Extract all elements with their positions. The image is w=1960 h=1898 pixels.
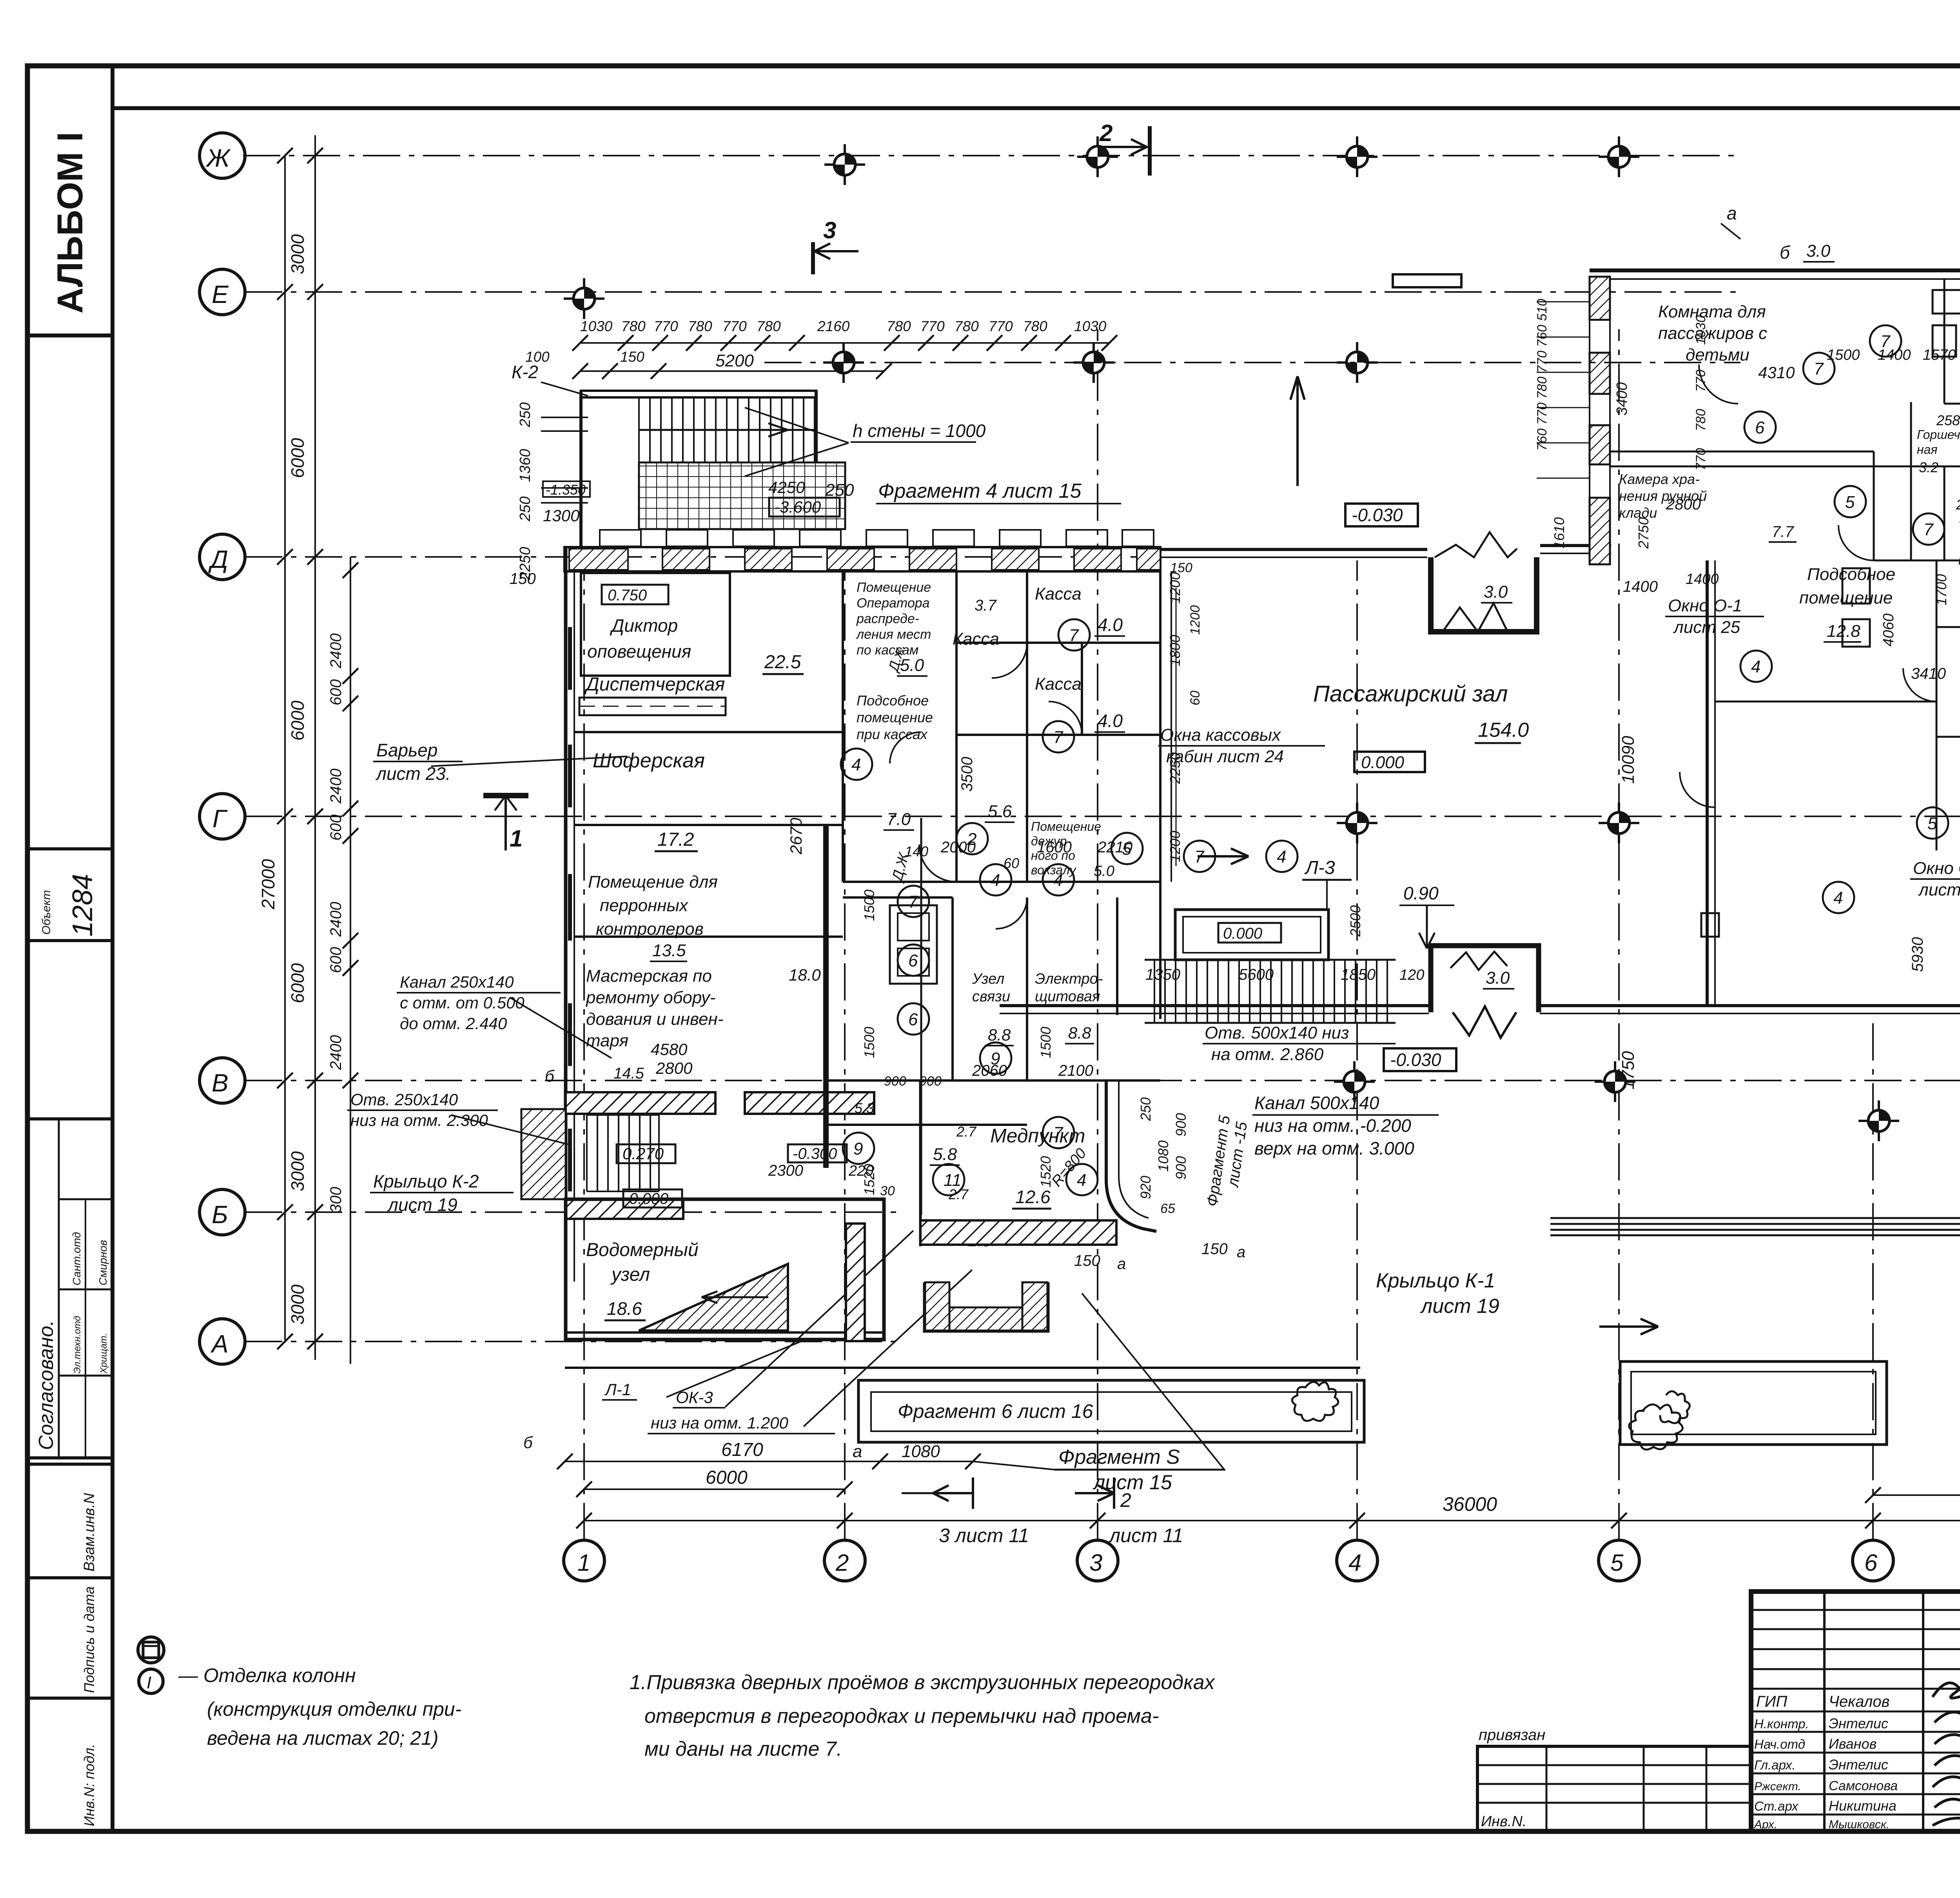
porch K-2 hatch outside west wall [521, 1109, 566, 1199]
svg-text:0.000: 0.000 [629, 1190, 668, 1207]
svg-text:4580: 4580 [651, 1040, 688, 1059]
svg-text:2500: 2500 [1347, 905, 1363, 937]
treads [1154, 960, 1387, 1023]
svg-text:-1.350: -1.350 [546, 482, 586, 498]
svg-text:1360: 1360 [517, 449, 534, 482]
svg-text:4: 4 [1348, 1550, 1361, 1576]
svg-text:клади: клади [1619, 505, 1657, 521]
svg-text:-3.600: -3.600 [774, 498, 821, 516]
svg-text:Оператора: Оператора [857, 596, 930, 611]
камера хранения [1610, 451, 1874, 560]
svg-text:4.0: 4.0 [1098, 615, 1123, 635]
mark 0.000 box hall [1354, 752, 1425, 772]
svg-text:лист 25: лист 25 [1918, 880, 1960, 899]
svg-text:3.0: 3.0 [1484, 582, 1508, 602]
stair K-2 right wall [815, 391, 818, 529]
svg-text:13.5: 13.5 [652, 941, 686, 960]
svg-text:4: 4 [1277, 847, 1286, 867]
stair L-3 [1145, 910, 1424, 1023]
svg-text:5200: 5200 [715, 351, 754, 370]
svg-text:1: 1 [510, 825, 523, 852]
svg-text:780: 780 [1693, 409, 1708, 431]
planter 1 scribble [1292, 1382, 1338, 1421]
svg-text:дования и инвен-: дования и инвен- [586, 1010, 723, 1029]
svg-text:оповещения: оповещения [587, 641, 691, 662]
svg-text:Горшеч-: Горшеч- [1917, 428, 1960, 442]
top dimension chain above left wing [512, 318, 1117, 396]
svg-text:кабин лист 24: кабин лист 24 [1166, 747, 1284, 766]
svg-text:а: а [1237, 1244, 1245, 1261]
svg-text:780: 780 [955, 318, 979, 334]
svg-text:250: 250 [1138, 1097, 1154, 1121]
dim line 6000 right [1873, 1494, 1960, 1496]
inner frame left vertical [111, 66, 114, 1831]
svg-text:пассажиров с: пассажиров с [1658, 324, 1767, 343]
svg-text:2800: 2800 [1666, 496, 1701, 513]
svg-text:600: 600 [327, 814, 345, 841]
svg-text:Гл.арх.: Гл.арх. [1754, 1758, 1796, 1772]
svg-text:3000: 3000 [287, 1151, 308, 1191]
axis G circle [200, 794, 245, 839]
landing box [1175, 910, 1328, 960]
svg-text:5930: 5930 [1909, 937, 1926, 972]
svg-text:Ж: Ж [205, 144, 231, 172]
axis D circle [200, 534, 245, 580]
section mark 2 bottom [1075, 1477, 1114, 1509]
svg-text:1850: 1850 [1341, 966, 1376, 983]
svg-text:Инв.N.: Инв.N. [1481, 1813, 1527, 1830]
svg-text:780: 780 [1023, 318, 1047, 334]
axis 3 [1097, 329, 1098, 1540]
svg-text:с отм. от 0.500: с отм. от 0.500 [400, 993, 524, 1012]
svg-text:Мастерская по: Мастерская по [586, 966, 712, 986]
svg-text:9: 9 [853, 1139, 863, 1158]
svg-text:Помещение: Помещение [857, 580, 931, 595]
svg-text:3: 3 [1089, 1550, 1102, 1576]
svg-text:2400: 2400 [327, 769, 345, 804]
svg-text:900: 900 [884, 1074, 906, 1089]
small rooms cluster top right [1874, 402, 1960, 560]
note symbol circle I [139, 1669, 163, 1693]
svg-text:детьми: детьми [1686, 345, 1749, 364]
agreement rows [59, 1198, 113, 1200]
дверь mark on hall east wall [1701, 913, 1719, 937]
svg-text:9: 9 [991, 1049, 1000, 1068]
fragment 6 rect inner [871, 1392, 1352, 1431]
svg-text:3.0: 3.0 [1486, 968, 1510, 988]
svg-text:I: I [147, 1673, 151, 1692]
svg-text:150: 150 [1170, 560, 1192, 575]
svg-text:Канал 250x140: Канал 250x140 [400, 973, 514, 991]
svg-text:Узел: Узел [972, 971, 1004, 987]
svg-text:Фрагмент 6 лист 16: Фрагмент 6 лист 16 [898, 1400, 1093, 1422]
dim line 36000 [584, 1520, 1960, 1521]
svg-text:900: 900 [919, 1074, 942, 1089]
svg-text:1: 1 [577, 1550, 590, 1576]
svg-text:3400: 3400 [1614, 382, 1630, 415]
svg-text:7: 7 [1053, 1124, 1063, 1143]
title left table columns [1823, 1592, 1826, 1831]
north vestibule [1431, 532, 1537, 632]
svg-text:перронных: перронных [600, 896, 689, 915]
svg-text:5: 5 [1927, 814, 1937, 833]
svg-text:6: 6 [908, 951, 918, 970]
mark -1.350 box [543, 481, 590, 497]
svg-text:Н.контр.: Н.контр. [1754, 1717, 1809, 1731]
B axis wall hatched [566, 1199, 683, 1219]
svg-text:5: 5 [1610, 1550, 1624, 1576]
svg-text:2: 2 [835, 1550, 849, 1576]
stair L-1 triangle [639, 1264, 788, 1331]
stair K-2 arrow [639, 429, 788, 431]
sub chain D-G line [350, 557, 351, 1364]
svg-text:65: 65 [1160, 1201, 1175, 1216]
Медпункт room [920, 1080, 1156, 1246]
svg-text:2400: 2400 [327, 902, 345, 937]
svg-text:ная: ная [1917, 442, 1938, 457]
Мойка столовой посуды [1936, 560, 1960, 737]
svg-text:а: а [853, 1442, 862, 1461]
svg-text:6000: 6000 [287, 438, 308, 478]
svg-text:760 770 780 770 760 510: 760 770 780 770 760 510 [1535, 299, 1550, 451]
svg-text:7: 7 [1924, 520, 1934, 539]
sanitary fixtures block [890, 905, 937, 984]
axis 1 [583, 560, 585, 1540]
svg-text:Энтелис: Энтелис [1829, 1715, 1888, 1731]
chain ticks [277, 148, 323, 1349]
svg-text:Водомерный: Водомерный [586, 1240, 699, 1260]
svg-text:Л-1: Л-1 [604, 1380, 631, 1399]
svg-text:2300: 2300 [768, 1162, 803, 1179]
svg-text:22.5: 22.5 [764, 652, 801, 673]
svg-text:6: 6 [1755, 418, 1765, 437]
svg-text:Взам.инв.N: Взам.инв.N [81, 1493, 98, 1572]
svg-text:0.270: 0.270 [622, 1144, 664, 1163]
svg-text:Нач.отд: Нач.отд [1754, 1737, 1805, 1751]
svg-text:2400: 2400 [327, 633, 345, 669]
svg-text:Ст.арх: Ст.арх [1754, 1799, 1799, 1813]
svg-text:Окно О-1: Окно О-1 [1668, 596, 1742, 615]
inner frame top horizontal [113, 106, 1960, 110]
stair K-2 mid rail [639, 429, 816, 431]
svg-text:Эл.техн.отд: Эл.техн.отд [72, 1316, 83, 1374]
svg-text:лист 15: лист 15 [1093, 1471, 1172, 1494]
kassa window wall line [1171, 572, 1172, 882]
svg-text:помещение: помещение [857, 709, 933, 725]
svg-text:3: 3 [823, 217, 836, 243]
Водомерный узел block [566, 1199, 884, 1340]
svg-text:1300: 1300 [543, 506, 580, 525]
svg-text:780: 780 [887, 318, 911, 334]
svg-text:770: 770 [1693, 448, 1708, 470]
svg-text:Фрагмент S: Фрагмент S [1058, 1446, 1180, 1468]
svg-text:3410: 3410 [1911, 665, 1946, 682]
svg-text:3 лист 11: 3 лист 11 [939, 1525, 1029, 1546]
corridor dark wall center [823, 825, 829, 1168]
svg-text:Отв. 250x140: Отв. 250x140 [350, 1090, 458, 1109]
svg-text:7: 7 [1194, 847, 1205, 867]
hall north wall right segment [1540, 544, 1611, 547]
svg-text:Крыльцо К-2: Крыльцо К-2 [373, 1171, 479, 1191]
svg-text:1700: 1700 [1933, 574, 1949, 605]
svg-text:0.750: 0.750 [608, 587, 647, 604]
svg-text:1030: 1030 [580, 318, 613, 334]
svg-text:2: 2 [967, 830, 976, 849]
svg-text:14.5: 14.5 [613, 1065, 644, 1082]
svg-text:4: 4 [1833, 888, 1843, 908]
svg-text:5.6: 5.6 [988, 802, 1012, 821]
axis B line [245, 1211, 902, 1213]
svg-text:Кладовая: Кладовая [1958, 549, 1960, 568]
svg-text:4250: 4250 [768, 478, 805, 497]
svg-text:Ржсект.: Ржсект. [1754, 1780, 1801, 1793]
svg-text:5.8: 5.8 [933, 1145, 957, 1164]
section mark 3 list 11 [902, 1492, 933, 1494]
axis 5 [1618, 329, 1620, 1540]
svg-text:ми даны на листе 7.: ми даны на листе 7. [644, 1738, 842, 1760]
medpunkt south hatched wall [920, 1220, 1116, 1245]
axis A circle [200, 1319, 245, 1364]
svg-text:2.7: 2.7 [1956, 497, 1960, 513]
kassa cluster outer walls [843, 571, 1160, 1019]
window extension lines right wing west [1537, 302, 1590, 478]
svg-text:ведена на листах 20; 21): ведена на листах 20; 21) [207, 1727, 439, 1749]
svg-text:Чекалов: Чекалов [1829, 1693, 1890, 1710]
right platform band [1550, 1218, 1960, 1235]
svg-text:7: 7 [908, 892, 918, 912]
columns G axis [1337, 803, 1377, 843]
right wing north wall [1590, 268, 1960, 272]
barrier double line in dispatcher room [579, 698, 726, 715]
svg-text:Б: Б [212, 1200, 228, 1229]
room Диктор оповещения [581, 573, 730, 676]
right wing west wall hatched piers [1590, 277, 1610, 564]
svg-text:18.0: 18.0 [789, 966, 821, 984]
bottom axis circles [564, 329, 1960, 1581]
svg-text:Канал 500x140: Канал 500x140 [1254, 1093, 1379, 1113]
svg-text:до отм. 2.440: до отм. 2.440 [400, 1014, 507, 1033]
svg-text:низ на отм. 1.200: низ на отм. 1.200 [651, 1414, 789, 1432]
svg-text:770: 770 [654, 318, 678, 334]
svg-text:770: 770 [722, 318, 747, 334]
svg-text:при кассах: при кассах [857, 726, 928, 742]
svg-text:Арх.: Арх. [1753, 1818, 1777, 1831]
axis 6 [1872, 1019, 1874, 1540]
dim line 6000 left [584, 1488, 845, 1490]
second dim line [580, 370, 884, 372]
svg-text:б: б [545, 1067, 555, 1085]
svg-text:4: 4 [991, 871, 1000, 890]
svg-text:6: 6 [908, 1010, 918, 1029]
svg-text:Е: Е [212, 280, 229, 308]
svg-text:лист 19: лист 19 [387, 1195, 457, 1215]
axis Zh circle [200, 133, 245, 178]
section mark 2 top [1098, 120, 1150, 176]
svg-text:связи: связи [972, 988, 1010, 1005]
signature scribbles [1933, 1683, 1960, 1829]
svg-text:4: 4 [851, 755, 861, 774]
svg-text:Объект: Объект [40, 890, 53, 935]
svg-text:5600: 5600 [1239, 966, 1274, 983]
svg-text:4310: 4310 [1758, 363, 1795, 382]
svg-text:5: 5 [1122, 839, 1132, 859]
svg-text:900: 900 [1173, 1113, 1189, 1137]
svg-text:4: 4 [1077, 1171, 1086, 1190]
svg-text:Д: Д [208, 545, 228, 573]
svg-text:150: 150 [510, 570, 536, 587]
svg-text:ГИП: ГИП [1756, 1693, 1788, 1710]
svg-text:1080: 1080 [1155, 1140, 1171, 1172]
left platform edge line [565, 1367, 1360, 1369]
svg-text:2400: 2400 [327, 1035, 345, 1070]
svg-text:0.000: 0.000 [1361, 753, 1405, 772]
mark 0.000 box vodomer [623, 1189, 682, 1207]
svg-text:17.2: 17.2 [657, 829, 694, 850]
svg-text:АЛЬБОМ I: АЛЬБОМ I [50, 132, 90, 314]
room divider passazhirov [1610, 466, 1960, 468]
svg-text:низ на отм. 2.300: низ на отм. 2.300 [350, 1111, 488, 1129]
svg-text:4.0: 4.0 [1098, 711, 1123, 731]
svg-text:ремонту обору-: ремонту обору- [585, 988, 716, 1007]
svg-text:1610: 1610 [1551, 517, 1567, 549]
svg-text:27000: 27000 [258, 859, 278, 910]
svg-text:4: 4 [1053, 871, 1063, 890]
sidebar inv box [27, 1698, 113, 1831]
svg-text:770: 770 [989, 318, 1013, 334]
svg-text:привязан: привязан [1479, 1726, 1545, 1744]
svg-text:1200: 1200 [1167, 572, 1183, 604]
svg-text:б: б [523, 1433, 533, 1452]
svg-text:низ на отм. -0.200: низ на отм. -0.200 [1254, 1115, 1411, 1136]
axis E line [245, 291, 1740, 293]
section mark 3 top [813, 217, 858, 274]
sidebar agreement box [27, 1119, 113, 1458]
svg-text:верх на отм. 3.000: верх на отм. 3.000 [1254, 1138, 1414, 1158]
west wall window marks [568, 627, 572, 1191]
svg-text:4: 4 [1751, 657, 1760, 676]
sidebar object box [27, 849, 113, 941]
column E1 [564, 278, 604, 319]
svg-text:Отв. 500x140 низ: Отв. 500x140 низ [1205, 1023, 1349, 1042]
svg-text:Энтелис: Энтелис [1829, 1757, 1888, 1773]
svg-text:ления мест: ления мест [856, 627, 931, 642]
svg-text:Инв.N: подл.: Инв.N: подл. [81, 1744, 97, 1826]
svg-text:Подсобное: Подсобное [857, 692, 929, 709]
door swing arcs [890, 364, 1936, 929]
planter 2 scribble [1629, 1391, 1690, 1450]
svg-text:Помещение для: Помещение для [588, 872, 718, 892]
small ticks left of stair [541, 417, 588, 418]
svg-text:2160: 2160 [817, 318, 850, 334]
svg-text:Сант.отд: Сант.отд [71, 1232, 83, 1285]
leader lines bottom left [666, 1231, 972, 1427]
svg-text:8.8: 8.8 [1068, 1024, 1091, 1042]
svg-text:отверстия в перегородках и пер: отверстия в перегородках и перемычки над… [644, 1705, 1159, 1728]
sidebar podpis box [27, 1578, 113, 1698]
svg-text:Мышковск.: Мышковск. [1829, 1818, 1889, 1831]
columns Zh axis [824, 144, 865, 185]
svg-text:3.7: 3.7 [975, 597, 997, 614]
svg-text:1350: 1350 [1145, 966, 1180, 983]
hall south wall [1000, 1004, 1429, 1007]
svg-text:2670: 2670 [787, 818, 805, 855]
title left table rows [1751, 1609, 1960, 1611]
arrow into hall left [1198, 848, 1249, 864]
svg-text:30: 30 [880, 1184, 895, 1198]
svg-text:-0.030: -0.030 [1390, 1050, 1441, 1070]
svg-text:б: б [1780, 242, 1791, 263]
svg-text:а: а [1727, 203, 1737, 223]
svg-text:150: 150 [1074, 1252, 1100, 1269]
svg-text:6000: 6000 [706, 1467, 748, 1488]
svg-text:7.0: 7.0 [887, 810, 911, 829]
arrow right bottom [1599, 1319, 1658, 1334]
svg-text:3000: 3000 [287, 1284, 308, 1325]
axis A line [245, 1341, 902, 1342]
left dimension chain line 1 [258, 135, 358, 1364]
svg-text:Л-3: Л-3 [1304, 857, 1335, 878]
svg-text:1600: 1600 [1037, 839, 1072, 856]
svg-text:1500: 1500 [861, 890, 877, 921]
svg-text:5.0: 5.0 [1094, 863, 1114, 879]
title block outline [1751, 1592, 1960, 1831]
svg-text:4060: 4060 [1880, 613, 1897, 647]
svg-text:6170: 6170 [721, 1439, 763, 1460]
axis E circle [200, 269, 245, 315]
svg-text:5: 5 [1845, 493, 1855, 512]
svg-text:1400: 1400 [1686, 571, 1719, 587]
svg-text:Смирнов: Смирнов [97, 1240, 109, 1285]
svg-text:770: 770 [1693, 370, 1708, 392]
bottom dimension lines [557, 1439, 1960, 1546]
wall under Шоферская [574, 824, 843, 826]
svg-text:1030: 1030 [1074, 318, 1107, 334]
agreement divider [58, 1119, 60, 1458]
svg-text:Согласовано.: Согласовано. [35, 1320, 58, 1450]
svg-text:h стены = 1000: h стены = 1000 [853, 421, 986, 441]
svg-text:Хрищат.: Хрищат. [98, 1333, 109, 1374]
axis V line [245, 1080, 1960, 1081]
svg-text:7: 7 [1814, 359, 1824, 379]
axis B circle [200, 1189, 245, 1235]
svg-text:120: 120 [1399, 967, 1424, 983]
V axis wall hatched left [566, 1092, 715, 1114]
axis Zh line [243, 155, 1740, 156]
svg-text:1520: 1520 [1038, 1156, 1054, 1187]
svg-text:0.90: 0.90 [1403, 883, 1439, 903]
svg-text:1500: 1500 [861, 1027, 877, 1058]
svg-text:щитовая: щитовая [1035, 988, 1100, 1005]
svg-text:300: 300 [327, 1187, 345, 1213]
stair K-2 left wall [579, 391, 583, 547]
svg-text:7: 7 [1069, 626, 1079, 645]
svg-text:Никитина: Никитина [1829, 1798, 1896, 1814]
svg-text:1200: 1200 [1188, 605, 1203, 635]
axis 2 [844, 560, 846, 1540]
svg-text:Диктор: Диктор [610, 615, 678, 636]
svg-text:7: 7 [1880, 332, 1891, 351]
svg-text:3000: 3000 [287, 234, 308, 274]
porch U-shape bottom center [925, 1282, 1047, 1331]
small box near hall top [1393, 274, 1461, 287]
svg-text:10090: 10090 [1619, 736, 1638, 784]
sidebar vzam box [27, 1464, 113, 1578]
colonnade axis line [764, 362, 1740, 363]
stair K-2 enclosure top wall [581, 391, 816, 397]
svg-text:12.6: 12.6 [1015, 1187, 1051, 1207]
mark 0.270 box [617, 1144, 675, 1163]
svg-text:Шоферская: Шоферская [593, 749, 705, 772]
